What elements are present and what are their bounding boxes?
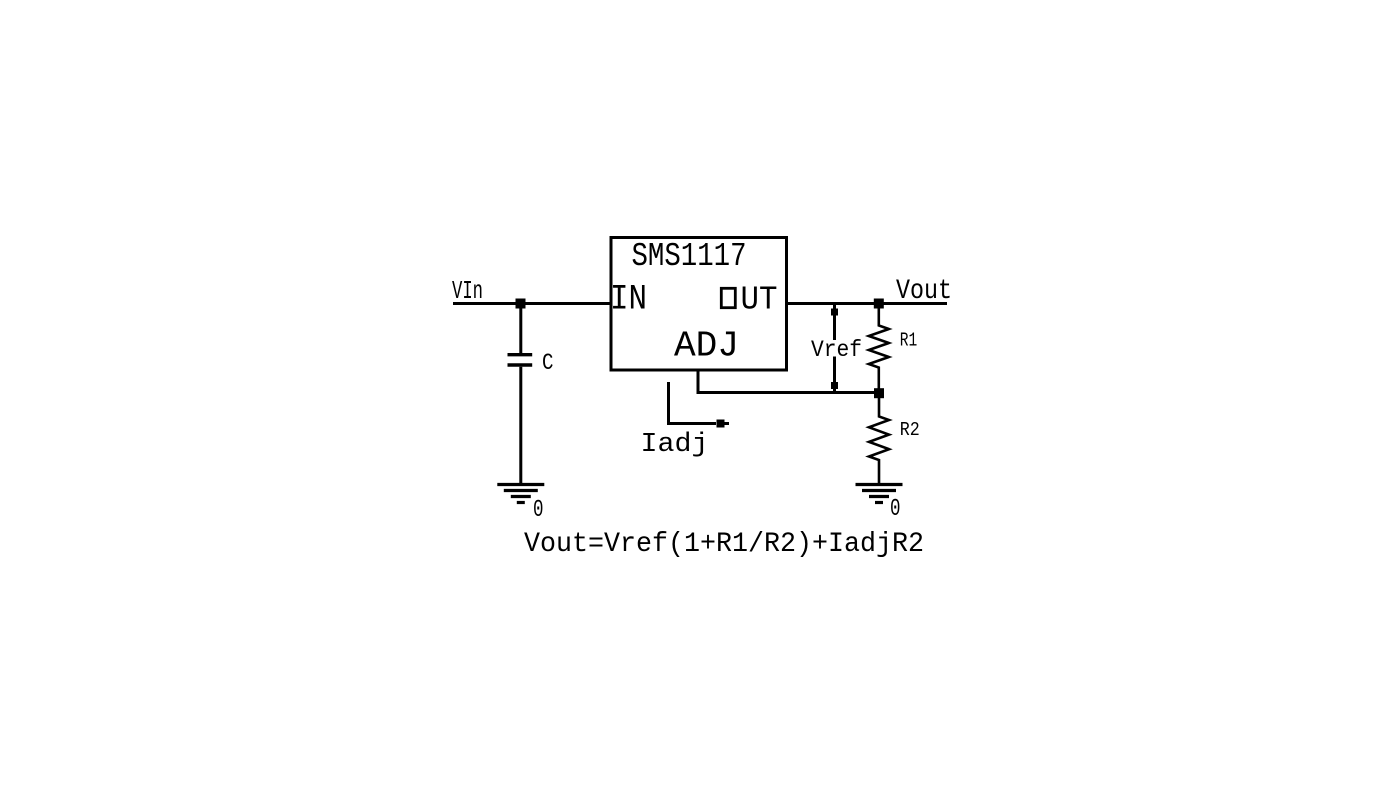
label SMS1117 [632,237,747,275]
svg-text:C: C [542,350,554,376]
svg-text:Iadj: Iadj [641,430,709,460]
label R1 [900,330,918,352]
svg-text:ADJ: ADJ [674,326,739,367]
wire Vin input [453,302,612,305]
svg-text:Vref: Vref [811,337,862,363]
node R1/R2 junction [874,388,884,398]
regulator U1 SMS1117 body [611,238,787,371]
svg-text:R1: R1 [900,330,918,352]
svg-text:0: 0 [533,497,544,524]
pin label ADJ [674,326,739,367]
capacitor C top lead [519,304,522,354]
formula Vout=Vref(1+R1/R2)+IadjR2 [524,529,924,560]
label 0 (left ground) [533,497,544,524]
label R2 [900,419,920,441]
Iadj annotation arrow [669,382,730,428]
node Vout junction [874,299,884,309]
wire capacitor to ground [519,367,522,484]
svg-text:SMS1117: SMS1117 [632,237,747,275]
svg-text:UT: UT [741,282,778,319]
resistor R2 [869,398,889,484]
svg-text:Vout=Vref(1+R1/R2)+IadjR2: Vout=Vref(1+R1/R2)+IadjR2 [524,529,924,560]
wire OUT to Vout [786,302,947,305]
label Vout [896,276,952,307]
resistor R1 [869,304,889,394]
pin label OUT (square O) [721,282,777,319]
Vref dimension arrow [831,305,838,392]
svg-text:Vout: Vout [896,276,952,307]
pin label IN [610,280,647,320]
label VIn [452,276,483,306]
node Vin junction [516,299,526,309]
svg-text:VIn: VIn [452,276,483,306]
ground left [497,485,544,503]
capacitor C plates [508,355,533,365]
ground right [856,485,903,503]
label C [542,350,554,376]
wire ADJ feedback [698,370,879,393]
svg-text:0: 0 [890,496,901,523]
svg-text:IN: IN [610,280,647,320]
label 0 (right ground) [890,496,901,523]
label Iadj [641,430,709,460]
label Vref [811,337,862,363]
svg-text:R2: R2 [900,419,920,441]
